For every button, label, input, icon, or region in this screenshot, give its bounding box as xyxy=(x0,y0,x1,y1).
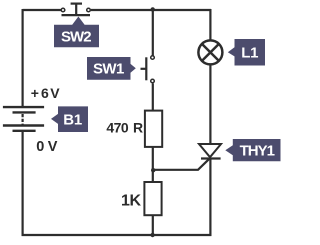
switch SW1 (push button in centre branch) xyxy=(141,56,155,83)
label THY1 xyxy=(225,139,280,161)
wire: centre branch 1K to bottom rail xyxy=(152,215,154,235)
wire: centre branch gate junction to 1K xyxy=(152,170,154,183)
svg-text:470: 470 xyxy=(106,120,128,136)
switch SW2 (push button in top rail) xyxy=(61,4,90,16)
node: bottom junction xyxy=(150,233,154,237)
svg-text:SW1: SW1 xyxy=(93,61,124,78)
svg-text:1K: 1K xyxy=(121,193,141,210)
resistor value 470 R xyxy=(106,120,143,136)
lamp L1 xyxy=(198,40,222,64)
battery B1 plates xyxy=(3,107,44,131)
svg-text:SW2: SW2 xyxy=(61,28,91,45)
label SW2 xyxy=(54,17,99,48)
wire: centre branch top junction to SW1 xyxy=(152,10,154,56)
resistor 1K body xyxy=(144,182,161,215)
thyristor THY1 triangle xyxy=(199,144,221,157)
wire: top rail right of SW2 xyxy=(91,9,211,11)
node: top junction xyxy=(151,7,155,11)
label L1 xyxy=(228,39,265,66)
svg-text:L1: L1 xyxy=(241,45,258,62)
svg-text:THY1: THY1 xyxy=(240,143,275,160)
svg-text:R: R xyxy=(133,120,143,136)
battery value + 6 V xyxy=(31,85,61,101)
svg-text:V: V xyxy=(50,85,60,101)
svg-text:+: + xyxy=(31,85,39,101)
battery value 0 V xyxy=(36,139,58,155)
wire: bottom rail xyxy=(22,234,212,236)
wire: right rail lamp to thyristor anode xyxy=(209,65,211,145)
label SW1 xyxy=(87,57,136,80)
wire: right rail top (top rail to lamp) xyxy=(209,9,211,40)
svg-text:6: 6 xyxy=(41,85,49,101)
wire: right rail thyristor cathode to bottom rail xyxy=(209,159,211,237)
node: gate junction xyxy=(151,168,155,172)
wire: left rail lower (battery - to bottom rail) xyxy=(22,131,24,236)
thyristor THY1 cathode bar xyxy=(201,157,221,159)
svg-text:0: 0 xyxy=(36,139,44,155)
wire: top rail left of SW2 xyxy=(23,9,61,11)
wire: centre branch 470R to gate junction xyxy=(152,147,154,171)
wire: centre branch SW1 to 470R xyxy=(152,83,154,111)
svg-text:B1: B1 xyxy=(63,112,82,129)
wire: thyristor gate run (junction, bend, up to cathode) xyxy=(153,158,210,170)
resistor 470R body xyxy=(145,111,162,147)
svg-text:V: V xyxy=(48,139,58,155)
label B1 xyxy=(51,106,88,132)
wire: left rail upper (top rail to battery +) xyxy=(22,9,24,107)
